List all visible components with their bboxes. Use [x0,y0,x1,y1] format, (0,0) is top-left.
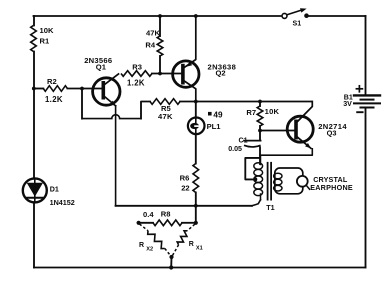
svg-text:0.05: 0.05 [228,145,242,153]
wire C1 top lead [259,131,261,141]
wire R3 to Q2 base [152,73,182,75]
node R5-Q2 junction [194,100,198,104]
wire RX junction to bottom rail [170,257,172,268]
node R4 bottom junction [158,72,162,76]
svg-text:R6: R6 [180,174,190,183]
svg-text:47K: 47K [158,112,173,121]
svg-text:1.2K: 1.2K [45,95,63,104]
resistor RX1 (dashed leads) [187,224,195,231]
svg-text:EARPHONE: EARPHONE [310,183,353,192]
label battery minus [357,111,362,113]
node R4 top junction [158,14,162,18]
svg-text:PL1: PL1 [207,122,222,131]
svg-text:Q2: Q2 [216,69,226,78]
svg-text:22: 22 [181,183,189,192]
arrow Q3 emitter [305,143,311,148]
wire C1 bottom lead [259,147,261,164]
svg-text:47K: 47K [146,29,160,38]
wire T1 center tap detour [245,158,260,180]
transformer T1 secondary winding [274,173,282,179]
svg-text:R: R [189,241,194,248]
svg-text:Q3: Q3 [327,128,337,137]
wire Q1 collector lead [105,74,119,85]
wire R5 left lead [141,102,150,119]
wire Q1 emitter lead [105,97,116,106]
wire left rail top segment [33,16,35,25]
wire top rail right section (S1 to right corner) [307,15,366,17]
svg-text:R: R [139,242,144,249]
wire Q2 emitter lead up [184,16,196,68]
arrow Q1 emitter [110,101,116,106]
node R8 right terminal [194,221,198,225]
wire top rail left section (V+ rail from left corner to S1) [34,15,282,17]
crystal earphone body [275,168,303,194]
wire Q3 collector lead [298,102,313,122]
resistor R4 [157,36,163,56]
svg-text:1N4152: 1N4152 [50,198,75,207]
resistor R5 [150,99,180,105]
svg-text:Q1: Q1 [96,63,107,72]
node R2 right junction [80,87,84,91]
node RX meeting point [169,255,173,259]
svg-text:10K: 10K [265,107,280,116]
node R8 left terminal [137,221,141,225]
wire R5 right / node row to Q3 collector [180,101,312,103]
node R6 bottom junction [194,204,198,208]
svg-text:R1: R1 [40,37,50,46]
resistor R1 [31,25,37,51]
svg-text:0.4: 0.4 [143,210,154,219]
wire left rail middle segment (below R1 through D1) [33,52,35,268]
wire Q1 emitter down run [115,106,117,206]
transformer T1 primary winding [260,157,262,165]
wire R2 left lead [34,88,43,90]
svg-text:D1: D1 [50,185,59,193]
node Q2 top rail junction [194,14,198,18]
wire Q3 emitter down [260,149,312,155]
wire emitter row to transformer [116,205,252,207]
diode D1 [23,178,47,202]
svg-text:R2: R2 [47,77,57,86]
svg-text:S1: S1 [293,20,302,28]
svg-text:R8: R8 [161,210,171,219]
transistor Q2 [173,61,199,87]
label battery plus [356,88,362,90]
wire R4 top lead [159,16,161,36]
wire Q1 base feedback run [81,89,83,119]
wire bottom rail [34,267,366,269]
node R5-R7 junction [258,100,262,104]
wire R7 bottom lead [259,126,261,131]
svg-text:R3: R3 [132,62,142,71]
resistor RX2 (dashed leads) [140,224,149,231]
transformer T1 core [267,163,269,200]
resistor R3 [121,71,152,77]
node R7 bottom junction [258,129,262,133]
wire R2 right lead to Q1 base [67,88,102,90]
svg-text:X1: X1 [196,246,203,252]
svg-text:10K: 10K [40,26,54,35]
svg-text:R4: R4 [145,41,155,50]
resistor R6 [193,164,199,193]
wire transformer primary bottom bend [252,200,261,206]
node bottom rail junction [169,265,173,269]
svg-text:1.2K: 1.2K [127,78,145,87]
battery B1 [354,94,380,96]
wire right rail (top corner down to battery +) [365,16,367,95]
node T1 center tap [253,177,257,181]
wire R8 left lead [139,222,153,224]
crystal earphone transducer [297,176,308,187]
resistor R2 [43,86,67,92]
wire Q2 collector to PL1 [195,102,197,118]
svg-text:R7: R7 [246,108,256,117]
wire R6 bottom lead [195,193,197,206]
wire R8 right lead [182,222,196,224]
wire Q2 collector lead down [184,81,196,102]
wire Q3 emitter lead [298,137,311,148]
switch S1 [282,13,287,18]
transistor Q1 [93,78,120,105]
wire right rail (battery - down to bottom corner) [365,108,367,268]
wire R7 top lead [259,102,261,107]
wire to Q3 base [260,130,295,132]
resistor R7 [257,106,263,126]
svg-text:49: 49 [213,111,223,120]
label #49 [208,112,212,116]
svg-text:T1: T1 [266,203,274,212]
arrow Q2 emitter (PNP, points toward base) [186,62,192,67]
wire R4 bottom lead [159,56,161,74]
transistor Q3 [287,116,313,142]
node R2 left junction [32,87,36,91]
wire PL1 to R6 [195,134,197,164]
capacitor C1 [244,140,261,142]
lamp PL1 [188,118,205,135]
svg-text:X2: X2 [146,246,153,252]
wire R6 junction down to R8 [195,206,197,223]
svg-text:3V: 3V [343,100,352,108]
resistor R8 [153,220,182,226]
svg-text:C1: C1 [239,136,248,144]
